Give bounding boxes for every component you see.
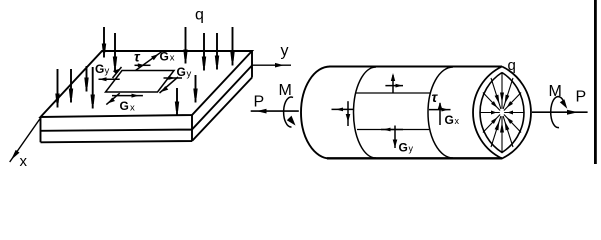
svg-text:G: G xyxy=(445,113,454,127)
bottom marker: sigma-y down arrow xyxy=(393,126,398,149)
q arrow 10 xyxy=(230,27,234,66)
sigma-x arrow top (up-right) xyxy=(136,52,162,71)
top marker: tau right arrow xyxy=(385,84,403,88)
q arrow 7 xyxy=(183,27,187,64)
section arc 1 xyxy=(354,67,377,158)
right end outer lens xyxy=(473,67,531,159)
q arrow 5 xyxy=(102,27,106,58)
right marker: up arrow xyxy=(438,102,442,125)
cylinder top line xyxy=(329,66,502,68)
tau arrow top edge xyxy=(135,63,151,67)
svg-text:G: G xyxy=(95,62,104,76)
svg-text:P: P xyxy=(576,89,587,106)
q arrow 9 xyxy=(215,33,219,70)
svg-text:x: x xyxy=(20,153,28,170)
svg-text:q: q xyxy=(195,7,204,24)
plate right side face xyxy=(192,51,252,141)
svg-text:y: y xyxy=(105,66,110,77)
right marker: sigma-x right arrow xyxy=(429,108,451,112)
svg-text:x: x xyxy=(455,116,460,126)
element top line xyxy=(356,92,431,94)
tau arrow bottom edge xyxy=(112,94,143,98)
element bottom line xyxy=(357,129,429,131)
left M moment arc xyxy=(284,97,293,127)
svg-text:G: G xyxy=(120,99,129,113)
sigma-y arrow right (pointing right) xyxy=(164,76,183,80)
q arrow 4 xyxy=(91,67,95,109)
q arrow 2 xyxy=(69,69,73,103)
left marker: sigma-x left arrow xyxy=(332,108,355,112)
svg-text:x: x xyxy=(130,103,135,114)
right end inner ellipse xyxy=(480,73,524,153)
tau arrow right edge xyxy=(160,77,179,93)
svg-text:x: x xyxy=(170,53,175,64)
plate top face xyxy=(41,51,253,117)
cylinder left end arc xyxy=(301,67,330,159)
svg-text:G: G xyxy=(399,141,408,155)
x axis xyxy=(10,118,41,162)
q arrow 6 xyxy=(113,33,117,71)
stress element on plate xyxy=(106,71,175,93)
svg-text:P: P xyxy=(254,94,265,111)
tau arrow left edge xyxy=(113,67,122,78)
q arrow 11 xyxy=(175,88,179,116)
plate front face top/mid/bottom lines xyxy=(41,115,193,142)
bottom marker: tau left arrow xyxy=(381,128,403,132)
right border xyxy=(594,0,597,164)
svg-text:y: y xyxy=(409,144,414,154)
section arc 2 xyxy=(428,67,453,158)
svg-text:y: y xyxy=(187,69,192,80)
y axis xyxy=(253,64,292,66)
svg-text:y: y xyxy=(281,43,289,60)
top marker: sigma-y up arrow xyxy=(391,73,395,93)
right P arrow xyxy=(532,110,588,115)
svg-text:q: q xyxy=(508,57,516,74)
right M moment arc xyxy=(551,97,565,128)
left marker: down arrow with tick xyxy=(346,101,351,126)
q arrow 8 xyxy=(202,33,206,71)
q arrow 12 xyxy=(193,75,197,103)
radial pressure spokes xyxy=(480,73,524,153)
q arrow 3 xyxy=(84,66,88,92)
left P arrow xyxy=(251,109,299,114)
sigma-x arrow bottom (down-left) xyxy=(106,93,119,104)
svg-text:G: G xyxy=(160,49,169,63)
q arrow 1 xyxy=(55,69,59,108)
sigma-y arrow left (pointing left) xyxy=(99,77,120,81)
cylinder bottom line xyxy=(327,157,502,159)
